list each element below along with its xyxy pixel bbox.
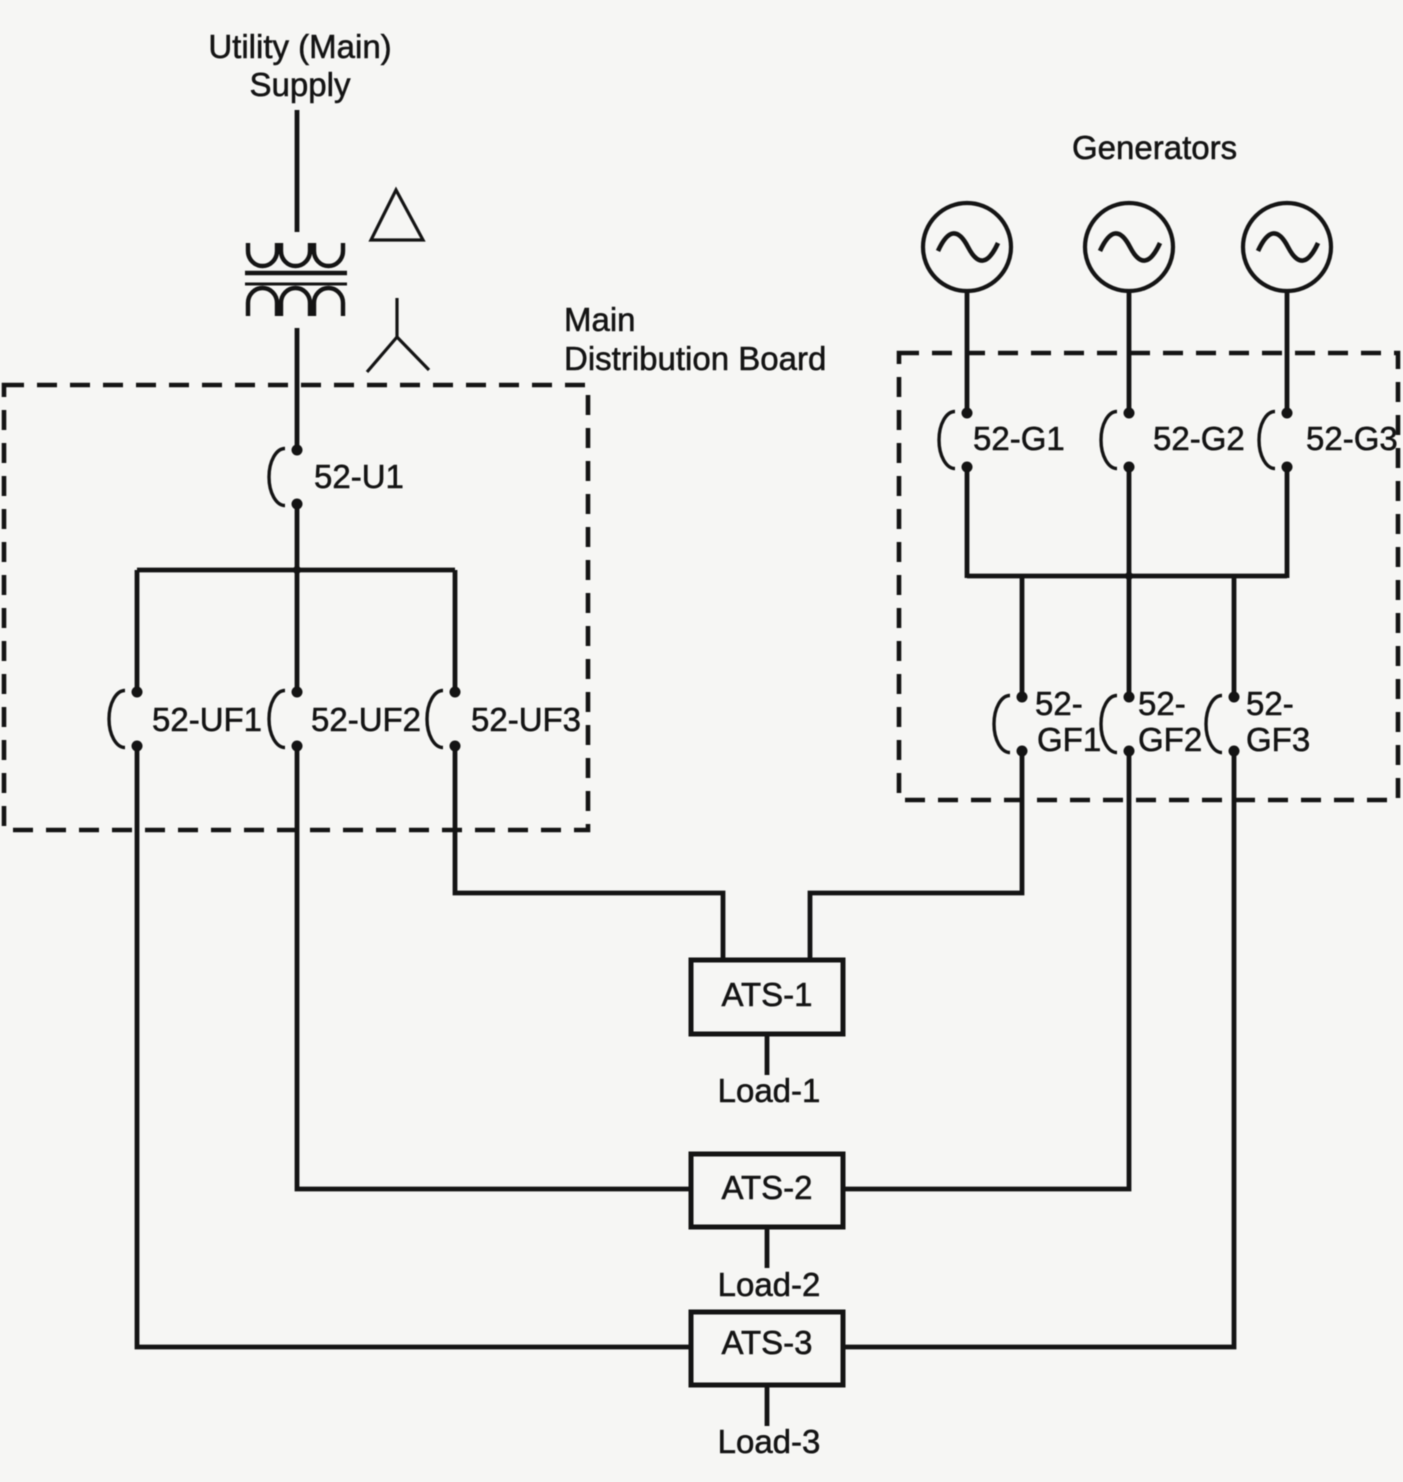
generator G2 <box>1085 203 1173 291</box>
svg-text:ATS-3: ATS-3 <box>721 1324 812 1361</box>
svg-text:52-: 52- <box>1138 685 1186 722</box>
svg-text:ATS-1: ATS-1 <box>721 976 812 1013</box>
breaker 52-G1 <box>939 408 973 473</box>
svg-text:Load-1: Load-1 <box>718 1072 821 1109</box>
svg-text:Load-3: Load-3 <box>718 1423 821 1460</box>
generator G3 <box>1243 203 1331 291</box>
wire ATS-2 to Load-2 <box>765 1227 770 1268</box>
wire 52-GF3 to ATS-3 <box>843 750 1234 1347</box>
svg-text:Distribution Board: Distribution Board <box>564 340 826 377</box>
svg-text:GF1: GF1 <box>1037 721 1101 758</box>
wire 52-UF2 to ATS-2 <box>297 746 691 1189</box>
svg-text:52-G3: 52-G3 <box>1306 420 1398 457</box>
generator G1 <box>923 203 1011 291</box>
svg-text:52-: 52- <box>1035 685 1083 722</box>
wire utility feed <box>295 110 300 232</box>
breaker 52-G2 <box>1101 408 1135 473</box>
svg-text:Supply: Supply <box>250 66 351 103</box>
svg-text:Utility (Main): Utility (Main) <box>208 28 391 65</box>
wye winding symbol <box>367 298 429 372</box>
wire generator G1 drop <box>965 291 970 415</box>
breaker 52-UF2 <box>269 687 303 752</box>
breaker 52-UF3 <box>427 687 461 752</box>
transformer T1 core <box>245 273 347 284</box>
svg-text:52-UF1: 52-UF1 <box>152 701 262 738</box>
svg-text:ATS-2: ATS-2 <box>721 1169 812 1206</box>
svg-text:52-U1: 52-U1 <box>314 458 404 495</box>
wire 52-G1 to gen bus <box>965 465 970 578</box>
wire generator bus horizontal <box>967 574 1287 579</box>
breaker 52-GF3 <box>1206 692 1240 757</box>
junction node at UF bus <box>293 566 301 574</box>
wire generator G2 drop <box>1127 291 1132 415</box>
wire generator G3 drop <box>1285 291 1290 415</box>
transformer T1 secondary winding <box>248 288 343 316</box>
wire 52-UF3 to ATS-1 <box>455 746 723 960</box>
ATS-3 box <box>691 1312 843 1385</box>
svg-text:Load-2: Load-2 <box>718 1266 821 1303</box>
breaker 52-G3 <box>1259 408 1293 473</box>
breaker 52-GF2 <box>1101 692 1135 757</box>
svg-text:Main: Main <box>564 301 636 338</box>
wire UF bus to 52-UF3 <box>453 570 458 692</box>
svg-text:52-UF2: 52-UF2 <box>311 701 421 738</box>
ATS-2 box <box>691 1154 843 1227</box>
svg-text:GF3: GF3 <box>1246 721 1310 758</box>
breaker 52-U1 <box>269 445 303 510</box>
svg-text:52-G2: 52-G2 <box>1153 420 1245 457</box>
svg-text:52-: 52- <box>1246 685 1294 722</box>
wire gen bus to 52-GF3 <box>1232 576 1237 698</box>
wire transformer secondary to 52-U1 <box>295 328 300 450</box>
Main Distribution Board dashed enclosure <box>4 385 588 830</box>
Generators dashed enclosure <box>899 353 1398 800</box>
wire 52-GF1 to ATS-1 <box>810 750 1022 960</box>
svg-text:52-G1: 52-G1 <box>973 420 1065 457</box>
wire gen bus to 52-GF1 <box>1020 576 1025 698</box>
breaker 52-GF1 <box>994 692 1028 757</box>
wire ATS-3 to Load-3 <box>765 1385 770 1426</box>
breaker 52-UF1 <box>109 687 143 752</box>
wire UF bus to 52-UF1 <box>135 570 140 692</box>
wire 52-GF2 to ATS-2 <box>843 750 1129 1189</box>
delta winding symbol <box>371 190 423 240</box>
wire 52-G3 to gen bus <box>1285 465 1290 578</box>
wire 52-U1 to UF bus <box>295 504 300 692</box>
wire 52-UF1 to ATS-3 <box>137 746 691 1347</box>
svg-text:GF2: GF2 <box>1138 721 1202 758</box>
transformer T1 primary winding <box>248 243 343 266</box>
wire ATS-1 to Load-1 <box>765 1034 770 1075</box>
wire UF bus horizontal <box>137 568 455 573</box>
ATS-1 box <box>691 960 843 1034</box>
wire 52-G2 through gen bus to 52-GF2 <box>1127 465 1132 698</box>
svg-text:52-UF3: 52-UF3 <box>471 701 581 738</box>
svg-text:Generators: Generators <box>1072 129 1237 166</box>
junction node at gen bus <box>1125 572 1133 580</box>
